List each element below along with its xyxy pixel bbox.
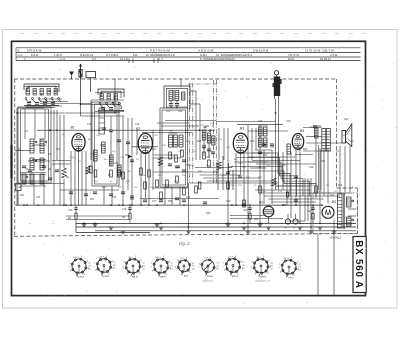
junction 14 [122, 204, 124, 206]
aerial coil bank S1-S3 [24, 84, 59, 92]
svg-text:A.E.D I.D.B.: A.E.D I.D.B. [198, 49, 214, 53]
valve socket ECH21 [97, 259, 111, 273]
ground 10 [246, 230, 251, 232]
svg-text:C48: C48 [186, 197, 191, 199]
junction 21 [188, 226, 190, 228]
svg-text:ECH21: ECH21 [77, 277, 85, 279]
resistor R6 [122, 172, 125, 179]
svg-text:C23: C23 [170, 155, 175, 157]
svg-text:C13: C13 [100, 145, 105, 147]
wire h7 [95, 92, 124, 94]
svg-text:EF22: EF22 [288, 278, 294, 280]
valve B6 AZ1 rectifier [322, 206, 334, 218]
wire v49 [263, 150, 265, 204]
svg-text:C51: C51 [330, 195, 335, 197]
svg-text:C20: C20 [243, 210, 248, 212]
tone coil S19 [315, 128, 319, 138]
wire v2 [24, 109, 26, 139]
wire v29 [148, 153, 150, 205]
svg-text:R1: R1 [270, 266, 272, 268]
wire v63 [319, 148, 321, 223]
resistor R17 [203, 152, 206, 159]
ground 14 [309, 230, 314, 232]
chassis border left [14, 79, 16, 236]
wire h4 [40, 103, 91, 105]
wire v65 [327, 148, 329, 204]
junction 33 [319, 223, 321, 225]
resistor R25 [249, 213, 251, 219]
resistor R18 [208, 160, 211, 167]
RC decoupling pairs [75, 205, 77, 208]
IF transformer S11 S12 [164, 86, 190, 109]
svg-text:B1: B1 [71, 125, 75, 129]
svg-text:C35: C35 [270, 147, 275, 149]
capacitor C26 [143, 199, 147, 201]
mains dashed box [313, 193, 358, 234]
wire h28 [153, 154, 172, 156]
capacitor C31 [242, 203, 246, 205]
junction 23 [227, 223, 229, 225]
capacitor C10 [130, 159, 134, 161]
svg-text:C28: C28 [286, 121, 291, 123]
wire h19 [161, 125, 196, 127]
wire h50 [230, 215, 264, 217]
wire v39 [218, 128, 220, 160]
svg-text:4 .A: 4 .A [60, 57, 65, 61]
wire v70 [317, 234, 319, 296]
capacitor C5 [48, 177, 52, 179]
wire h66 [348, 208, 356, 210]
svg-text:B3: B3 [240, 127, 244, 131]
wire v58 [299, 150, 301, 223]
wire h22 [303, 127, 322, 129]
wire h6 [17, 112, 115, 114]
capacitor C1 [22, 165, 26, 167]
wire v13 [74, 151, 76, 205]
wire h18 [157, 122, 189, 124]
wire v59 [304, 178, 306, 221]
capacitor C8 [117, 139, 121, 141]
junction 9 [83, 223, 85, 225]
wire h43 [60, 189, 119, 191]
wire v17 [80, 104, 82, 116]
svg-text:ECH21: ECH21 [102, 276, 110, 278]
chassis border bottom [14, 234, 357, 237]
wire v3 [34, 109, 36, 139]
svg-text:B4: B4 [300, 129, 304, 133]
junction 26 [243, 223, 245, 225]
frame left dark smudge [10, 145, 12, 178]
svg-text:R36: R36 [206, 213, 211, 215]
oscillator coil former [99, 108, 105, 134]
wire v43 [240, 153, 242, 175]
ground 2 [93, 223, 98, 225]
junction 37 [80, 103, 82, 105]
wire h13 [190, 90, 196, 92]
wire v26 [136, 130, 138, 155]
resistor R2 [286, 192, 288, 197]
resistor R3 [94, 170, 97, 177]
svg-text:B5: B5 [259, 201, 263, 205]
capacitor C23 [109, 193, 113, 195]
ground 3 [109, 226, 114, 228]
junction 27 [247, 226, 249, 228]
wire h15 [237, 124, 283, 126]
resistor R26 [312, 213, 314, 219]
wire v36 [199, 104, 201, 160]
wire v5 [33, 183, 35, 205]
wire h48 [268, 198, 324, 200]
svg-text:B6: B6 [332, 200, 336, 204]
wire v33 [179, 187, 181, 205]
svg-text:M: M [212, 126, 214, 128]
gang top link [188, 83, 217, 85]
svg-text:1M: 1M [210, 151, 213, 153]
ground 6 [159, 226, 164, 228]
audio area striping [240, 153, 290, 196]
junction 12 [110, 204, 112, 206]
svg-text:C2: C2 [298, 264, 300, 266]
aerial plug [80, 64, 82, 79]
tuning gang link 4 [216, 80, 218, 183]
svg-text:R25: R25 [303, 149, 308, 151]
valve socket AZ1 [178, 260, 190, 272]
wire h49 [272, 201, 316, 203]
svg-text:C18: C18 [135, 124, 140, 126]
svg-text:EBL21: EBL21 [232, 276, 239, 278]
svg-text:R1: R1 [170, 266, 172, 268]
svg-text:C22: C22 [166, 111, 171, 113]
wire h40 [15, 183, 64, 185]
tuning gang link 1 [188, 83, 190, 183]
ground 11 [258, 223, 263, 225]
svg-text:+: + [285, 226, 287, 230]
wire v4 [44, 109, 46, 139]
wire h67 [348, 215, 356, 217]
wire h1 [24, 86, 59, 88]
svg-text:2.W.10.H.B: 2.W.10.H.B [253, 49, 268, 53]
svg-text:EM34: EM34 [207, 276, 213, 278]
resistor R20 [243, 200, 246, 207]
svg-text:5TE 6 A.W.: 5TE 6 A.W. [27, 49, 42, 53]
wire h37 [200, 174, 240, 176]
wire h57 [20, 174, 46, 176]
svg-text:2M: 2M [158, 175, 161, 177]
wire v60 [307, 178, 309, 221]
valve B3 EBL21 [233, 133, 248, 153]
junction 18 [156, 204, 158, 206]
junction 40 [249, 204, 251, 206]
junction 4 [37, 204, 39, 206]
wire v21 [110, 116, 112, 166]
type label box [353, 237, 366, 293]
capacitor C14 [238, 175, 242, 177]
scan speckle top [20, 33, 24, 35]
junction 2 [23, 204, 25, 206]
IF1 lower coils [169, 135, 173, 147]
svg-text:C19: C19 [68, 210, 73, 212]
pickup arrow [274, 71, 278, 75]
svg-text:C3: C3 [142, 269, 144, 271]
svg-text:C50: C50 [282, 205, 287, 207]
svg-text:1/R: 1/R [133, 53, 137, 57]
svg-text:C24: C24 [178, 111, 183, 113]
fuse box [86, 72, 96, 78]
resistor R24 [129, 213, 131, 219]
wire v56 [290, 152, 292, 218]
svg-text:C40: C40 [87, 124, 92, 126]
valve socket EF22 [282, 260, 296, 274]
svg-text:C3: C3 [242, 268, 244, 270]
svg-text:C3: C3 [298, 270, 300, 272]
mains aerial terminal [16, 184, 22, 191]
svg-text:R19: R19 [250, 141, 255, 143]
svg-text:C2: C2 [216, 263, 218, 265]
wire v6 [43, 183, 45, 205]
capacitor C21 [84, 193, 88, 195]
wire v40 [223, 128, 225, 160]
wire v11 [63, 179, 65, 205]
wire h61 [252, 152, 270, 154]
junction 7 [63, 204, 65, 206]
svg-text:achteraanz. w: achteraanz. w [255, 280, 269, 283]
wire h30 [52, 160, 71, 162]
svg-text:A3 0612: A3 0612 [329, 235, 342, 239]
wire v57 [295, 150, 297, 205]
ground 12 [266, 226, 271, 228]
svg-text:13 W. Nr W. 2.81.7.W: 13 W. Nr W. 2.81.7.W [305, 49, 334, 53]
resistor R16 [198, 182, 201, 189]
junction 17 [148, 204, 150, 206]
capacitor C22 [93, 191, 97, 193]
wire h27 [15, 150, 30, 152]
wire h12 [17, 107, 44, 109]
wire v20 [111, 186, 113, 205]
IF unit box [160, 108, 188, 187]
wire h46 [264, 195, 340, 197]
wire h65 [276, 185, 311, 187]
ground 9 [242, 226, 247, 228]
B4 grid stack [287, 144, 291, 154]
resistor R12 [166, 180, 169, 187]
svg-text:C3: C3 [216, 269, 218, 271]
ground 13 [298, 226, 303, 228]
loudspeaker [342, 131, 346, 144]
wire v35 [195, 91, 197, 160]
capacitor C28 [175, 197, 179, 199]
wire h32 [248, 156, 291, 158]
wire h63 [248, 161, 268, 163]
svg-text:C3: C3 [88, 269, 90, 271]
chassis border top [14, 78, 337, 80]
junction 6 [56, 129, 58, 131]
wire v55 [286, 152, 288, 205]
resistor R21 [259, 186, 262, 193]
wire v22 [114, 79, 116, 113]
svg-text:E: E [18, 49, 20, 53]
capacitor C13 [226, 171, 230, 173]
capacitor C3 [42, 165, 46, 167]
capacitor C17 [270, 143, 274, 145]
wire v53 [278, 99, 280, 190]
HT rail [15, 204, 322, 206]
wire v71 [333, 234, 335, 296]
capacitor C2 [28, 169, 32, 171]
wire h2 [40, 98, 62, 100]
valve socket EBL21 [226, 259, 240, 273]
wire h52 [287, 220, 305, 222]
wire v8 [56, 110, 58, 160]
zigzag resistors [62, 168, 66, 178]
junction 31 [299, 223, 301, 225]
wire v32 [171, 187, 173, 205]
junction 15 [131, 204, 133, 206]
svg-text:P D.T R.H.U.M.: P D.T R.H.U.M. [150, 49, 171, 53]
wire h42 [153, 187, 188, 189]
valve B4 EBL21 [292, 134, 303, 150]
wire h33 [252, 160, 300, 162]
wire v41 [227, 128, 229, 223]
wire v64 [323, 148, 325, 196]
junction 22 [199, 129, 201, 131]
wire h16 [37, 129, 215, 131]
valve table grid [16, 47, 361, 49]
capacitor C7 [109, 129, 113, 131]
wire h24 [306, 142, 342, 144]
svg-text:R1: R1 [217, 266, 219, 268]
junction 10 [94, 223, 96, 225]
earth rail [76, 222, 356, 224]
wire v66 [333, 220, 335, 231]
ground 15 [318, 226, 323, 228]
wire h59 [66, 215, 130, 217]
junction 20 [183, 204, 185, 206]
capacitor C19 [313, 125, 317, 127]
wire h55 [28, 160, 50, 162]
RF stack coils [94, 150, 98, 161]
resistor R14 [183, 188, 186, 195]
heater rail [95, 230, 356, 232]
wire v14 [78, 152, 80, 206]
wire h45 [260, 192, 352, 194]
svg-text:EAF42: EAF42 [160, 276, 167, 279]
svg-text:C47: C47 [152, 201, 157, 203]
svg-text:S19: S19 [310, 127, 315, 129]
svg-text:R1: R1 [113, 265, 115, 267]
junction 38 [65, 204, 67, 206]
wire v30 [152, 130, 154, 190]
svg-text:C33: C33 [257, 167, 262, 169]
wire h31 [52, 163, 71, 165]
junction 28 [259, 223, 261, 225]
svg-text:R15: R15 [197, 141, 202, 143]
wire h56 [20, 172, 46, 174]
capacitor C18 [294, 175, 298, 177]
resistor R19 [227, 182, 230, 189]
resistor R13 [176, 176, 179, 183]
wire v67 [339, 146, 341, 193]
svg-text:C39: C39 [309, 167, 314, 169]
junction 24 [231, 204, 233, 206]
wire h25 [303, 150, 330, 152]
svg-text:C2: C2 [113, 262, 115, 264]
valve socket ECH21 [254, 259, 268, 273]
wire h11 [81, 115, 125, 117]
svg-text:C18: C18 [122, 209, 127, 211]
junction 11 [98, 129, 100, 131]
wire v7 [53, 110, 55, 205]
aerial unit box [18, 107, 51, 183]
svg-text:R1: R1 [242, 265, 244, 267]
wire h14 [190, 103, 200, 105]
junction 19 [160, 223, 162, 225]
svg-text:ECH21: ECH21 [259, 277, 267, 279]
svg-text:13.1.8: 13.1.8 [120, 57, 128, 61]
wire v23 [122, 116, 124, 205]
capacitor C29 [182, 199, 186, 201]
wire h47 [140, 198, 219, 200]
wire h17 [142, 132, 192, 134]
earth rail joint [75, 223, 77, 232]
svg-text:C21: C21 [152, 149, 157, 151]
svg-text:R23: R23 [281, 165, 286, 167]
resistor R5 [118, 170, 121, 177]
resistor R22 [315, 186, 318, 193]
svg-text:C17: C17 [114, 163, 119, 165]
IF1 top stub [180, 79, 182, 87]
junction 34 [333, 230, 335, 232]
wire v62 [315, 128, 317, 198]
wire h64 [250, 167, 266, 169]
svg-text:2.2: 2.2 [92, 57, 96, 61]
svg-text:C2: C2 [242, 262, 244, 264]
svg-text:BX 560 A: BX 560 A [353, 240, 364, 289]
oscillator unit box [92, 102, 119, 186]
svg-text:F.G.D: F.G.D [31, 53, 38, 57]
wire v37 [203, 130, 205, 150]
wire v19 [103, 186, 105, 205]
svg-text:S. WINKELDOVENSTRAAT: S. WINKELDOVENSTRAAT [200, 57, 235, 61]
chassis border right [336, 79, 338, 188]
wire h39 [207, 180, 272, 182]
svg-text:S20: S20 [344, 119, 349, 121]
svg-text:R34: R34 [130, 199, 135, 201]
wire v48 [259, 125, 261, 223]
junction 42 [321, 204, 323, 206]
wire v52 [275, 99, 277, 190]
svg-text:C45: C45 [36, 197, 41, 199]
svg-text:C.A: C.A [18, 53, 23, 57]
audio left verticals [217, 160, 219, 190]
wire v15 [81, 151, 83, 205]
junction 25 [235, 204, 237, 206]
wire h5 [26, 105, 62, 107]
junction 32 [310, 226, 312, 228]
resistor R8 [144, 182, 147, 189]
junction 39 [129, 204, 131, 206]
wire v47 [255, 128, 257, 150]
wire v34 [187, 183, 189, 231]
capacitor C27 [159, 199, 163, 201]
capacitor C20 [69, 191, 73, 193]
ground 1 [82, 223, 87, 225]
junction 29 [282, 204, 284, 206]
junction 3 [26, 204, 28, 206]
wire v61 [310, 178, 312, 231]
wire h23 [306, 136, 322, 138]
svg-text:R1: R1 [88, 266, 90, 268]
ground 5 [155, 223, 160, 225]
